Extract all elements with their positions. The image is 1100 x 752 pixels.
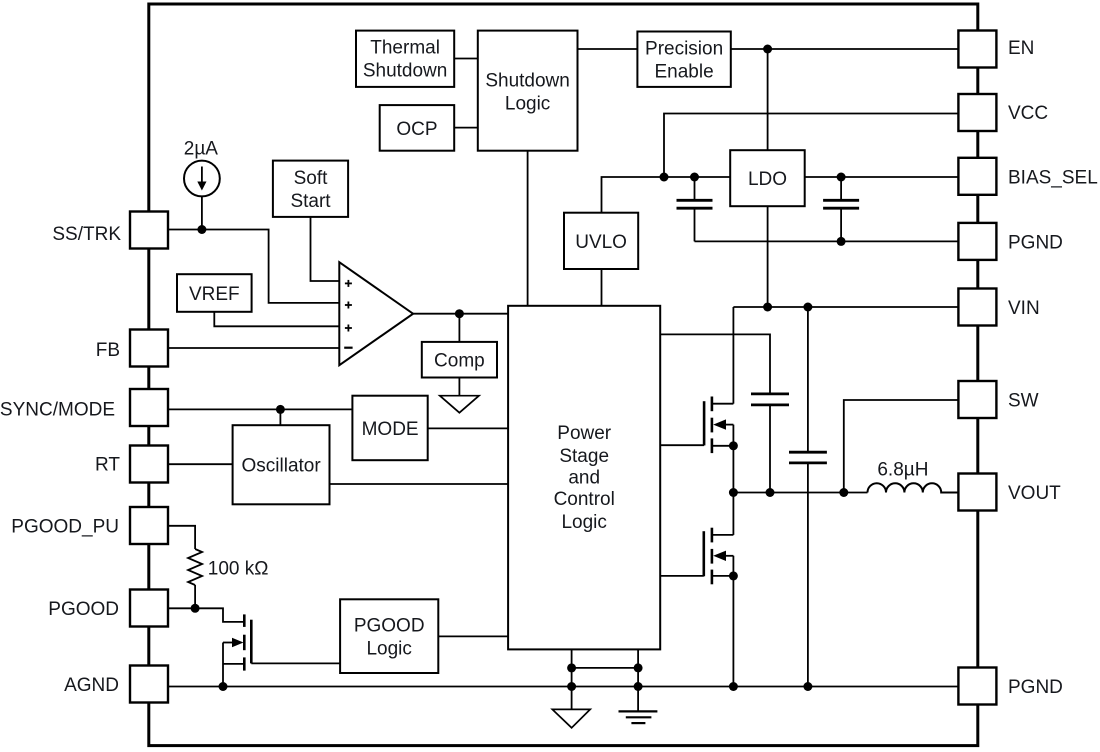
wire SS/TRK pin to error amp input <box>168 230 339 303</box>
svg-text:FB: FB <box>96 340 120 361</box>
svg-text:VIN: VIN <box>1008 298 1040 319</box>
wire PGND line from bypass caps to PGND pin <box>695 240 959 242</box>
block Comp <box>422 342 497 378</box>
block Shutdown Logic <box>478 31 578 151</box>
wire RT pin to Oscillator <box>168 463 233 465</box>
wire AGND pin to bottom PGND pin (ground rail) <box>168 686 958 688</box>
svg-text:Soft: Soft <box>294 168 329 189</box>
svg-text:and: and <box>568 468 600 489</box>
node SW-inductor junction <box>839 488 848 497</box>
node comp junction <box>455 309 464 318</box>
wire VCC pin to LDO input <box>664 114 958 178</box>
wire Shutdown Logic bottom to Power Stage <box>527 151 529 306</box>
block Thermal Shutdown <box>356 31 454 87</box>
wire Thermal Shutdown to Shutdown Logic <box>454 58 478 60</box>
IC boundary <box>149 4 978 746</box>
node Q2 source junction <box>729 571 738 580</box>
wire PGOOD node to Q3 drain <box>195 608 244 622</box>
op-amp U1 error amplifier <box>339 262 413 365</box>
svg-text:PGOOD: PGOOD <box>48 599 119 620</box>
block Soft Start <box>273 161 348 217</box>
wire OCP to Shutdown Logic <box>454 127 478 129</box>
svg-text:Stage: Stage <box>559 446 609 467</box>
svg-text:6.8µH: 6.8µH <box>877 459 928 480</box>
wire VREF to error amp input <box>214 312 339 327</box>
wire Q2 source to ground rail <box>732 556 734 687</box>
wire MODE to Power Stage <box>428 427 508 429</box>
svg-text:Precision: Precision <box>645 39 723 60</box>
node C2 top junction <box>837 173 846 182</box>
svg-text:OCP: OCP <box>396 119 437 140</box>
pin RT <box>130 446 168 483</box>
svg-text:PGOOD: PGOOD <box>354 616 425 637</box>
wire LDO bottom to VIN line <box>767 206 769 307</box>
node C2 bottom junction <box>837 237 846 246</box>
pin PGND bottom <box>958 668 996 705</box>
pin AGND <box>130 666 168 703</box>
wire BIAS_SEL line left (UVLO corner to LDO) <box>602 177 731 213</box>
svg-text:Power: Power <box>557 423 612 444</box>
wire Precision Enable to EN pin <box>731 48 959 50</box>
transistor Q1 high-side FET <box>704 397 733 454</box>
wire Power Stage ground left leg <box>571 649 573 709</box>
svg-text:VREF: VREF <box>189 284 240 305</box>
capacitor C1 LDO bypass left <box>677 177 713 241</box>
wire PGOOD_PU pin to resistor <box>168 526 195 549</box>
pin PGND <box>958 223 996 260</box>
wire SYNC/MODE pin to MODE block <box>168 408 352 410</box>
wire comp node down to Comp block <box>458 314 460 342</box>
pin SS/TRK <box>130 212 168 249</box>
node ground tie right junction <box>634 663 643 672</box>
block PGOOD Logic <box>340 599 438 673</box>
node ground tie left junction <box>567 663 576 672</box>
node Q1 source junction <box>729 441 738 450</box>
wire Power Stage ground right leg <box>637 649 639 711</box>
wire Q1 source to SW node <box>732 425 734 493</box>
wire Power Stage to bootstrap capacitor <box>660 334 770 394</box>
block UVLO <box>564 213 638 269</box>
wire Q2 drain to SW node <box>732 493 734 535</box>
svg-text:SYNC/MODE: SYNC/MODE <box>0 399 115 420</box>
node SW-C3 junction <box>766 488 775 497</box>
pin EN <box>958 31 996 68</box>
block Power Stage and Control Logic <box>508 306 660 650</box>
wire ground tie between legs <box>572 667 639 669</box>
svg-text:UVLO: UVLO <box>575 232 627 253</box>
svg-text:RT: RT <box>95 455 120 476</box>
svg-text:EN: EN <box>1008 38 1034 59</box>
block LDO <box>730 150 805 206</box>
svg-text:AGND: AGND <box>64 675 119 696</box>
node LDO-VIN junction <box>763 303 772 312</box>
capacitor C2 LDO bypass right <box>823 177 859 241</box>
svg-text:Control: Control <box>554 489 615 510</box>
pin BIAS_SEL <box>958 158 996 195</box>
wire LDO output to BIAS_SEL pin <box>805 176 959 178</box>
wire Q3 gate to PGOOD Logic <box>251 662 340 664</box>
svg-text:Comp: Comp <box>434 351 485 372</box>
node SS/TRK junction <box>197 225 206 234</box>
svg-text:SW: SW <box>1008 391 1039 412</box>
svg-text:PGND: PGND <box>1008 233 1063 254</box>
block Oscillator <box>233 425 330 504</box>
transistor Q2 low-side FET <box>704 528 734 585</box>
svg-text:Logic: Logic <box>505 94 550 115</box>
svg-text:MODE: MODE <box>362 419 419 440</box>
pin VCC <box>958 94 996 131</box>
wire VIN corner to Q1 drain <box>732 307 734 404</box>
wire Soft Start to error amp input <box>311 217 340 281</box>
node Q2 ground junction <box>729 682 738 691</box>
wire Shutdown Logic to Precision Enable <box>578 48 638 50</box>
wire Power Stage to Q2 gate <box>660 575 704 577</box>
pin FB <box>130 330 168 367</box>
power ground earth symbol <box>619 711 658 723</box>
pin PGOOD <box>130 590 168 627</box>
node ground rail right junction <box>634 682 643 691</box>
current source I1 2uA <box>184 161 220 230</box>
capacitor C3 bootstrap <box>751 394 789 493</box>
wire SW pin to SW node <box>844 400 959 493</box>
svg-text:Shutdown: Shutdown <box>485 71 570 92</box>
svg-text:Enable: Enable <box>655 62 714 83</box>
pin PGOOD_PU <box>130 507 168 544</box>
svg-text:PGND: PGND <box>1008 677 1063 698</box>
svg-text:Oscillator: Oscillator <box>242 456 322 477</box>
node C4-VIN junction <box>803 303 812 312</box>
pin VOUT <box>958 474 996 511</box>
transistor Q3 PGOOD open-drain FET <box>223 614 251 686</box>
node C1 top junction <box>690 173 699 182</box>
pin SW <box>958 381 996 418</box>
node ground rail left junction <box>567 682 576 691</box>
wire PGOOD Logic to Power Stage <box>438 635 508 637</box>
wire error amp output to Power Stage <box>413 313 508 315</box>
node EN junction <box>763 45 772 54</box>
capacitor C4 VIN input <box>789 307 827 687</box>
svg-text:Start: Start <box>290 191 331 212</box>
wire PGOOD pin to resistor node <box>168 607 195 609</box>
block MODE <box>352 396 427 461</box>
svg-text:SS/TRK: SS/TRK <box>52 224 121 245</box>
pin VIN <box>958 289 996 326</box>
svg-text:Thermal: Thermal <box>370 38 440 59</box>
analog ground symbol bottom <box>552 709 590 727</box>
node VCC-LDO junction <box>660 173 669 182</box>
node PGOOD-resistor junction <box>191 604 200 613</box>
svg-text:Logic: Logic <box>561 512 606 533</box>
svg-text:Shutdown: Shutdown <box>363 61 448 82</box>
svg-text:BIAS_SEL: BIAS_SEL <box>1008 168 1098 189</box>
wire Oscillator to Power Stage <box>330 483 509 485</box>
svg-text:2µA: 2µA <box>184 139 219 160</box>
node C4 ground junction <box>803 682 812 691</box>
svg-text:VOUT: VOUT <box>1008 483 1061 504</box>
node SYNC-Oscillator junction <box>276 405 285 414</box>
wire UVLO bottom to Power Stage <box>601 269 603 306</box>
wire FB pin to error amp inverting input <box>168 347 339 349</box>
inductor L1 6.8uH <box>868 483 959 492</box>
svg-text:LDO: LDO <box>748 169 787 190</box>
wire Power Stage to Q1 gate <box>660 444 704 446</box>
wire SYNC node down to Oscillator <box>279 409 281 425</box>
block VREF <box>177 274 252 312</box>
wire SW node rail <box>733 492 867 494</box>
svg-text:Logic: Logic <box>366 639 411 660</box>
block OCP <box>380 105 455 151</box>
wire EN node to LDO top <box>767 49 769 150</box>
svg-text:PGOOD_PU: PGOOD_PU <box>11 517 119 538</box>
block Precision Enable <box>637 32 730 87</box>
analog ground symbol below Comp <box>440 378 479 413</box>
svg-text:100 kΩ: 100 kΩ <box>208 558 269 579</box>
node SW-Q junction <box>729 488 738 497</box>
pin SYNC/MODE <box>130 389 168 426</box>
node Q3 source ground junction <box>219 682 228 691</box>
svg-text:VCC: VCC <box>1008 103 1048 124</box>
resistor R1 100 kOhm pull-up <box>188 549 202 608</box>
wire VIN line to VIN pin <box>733 306 958 308</box>
